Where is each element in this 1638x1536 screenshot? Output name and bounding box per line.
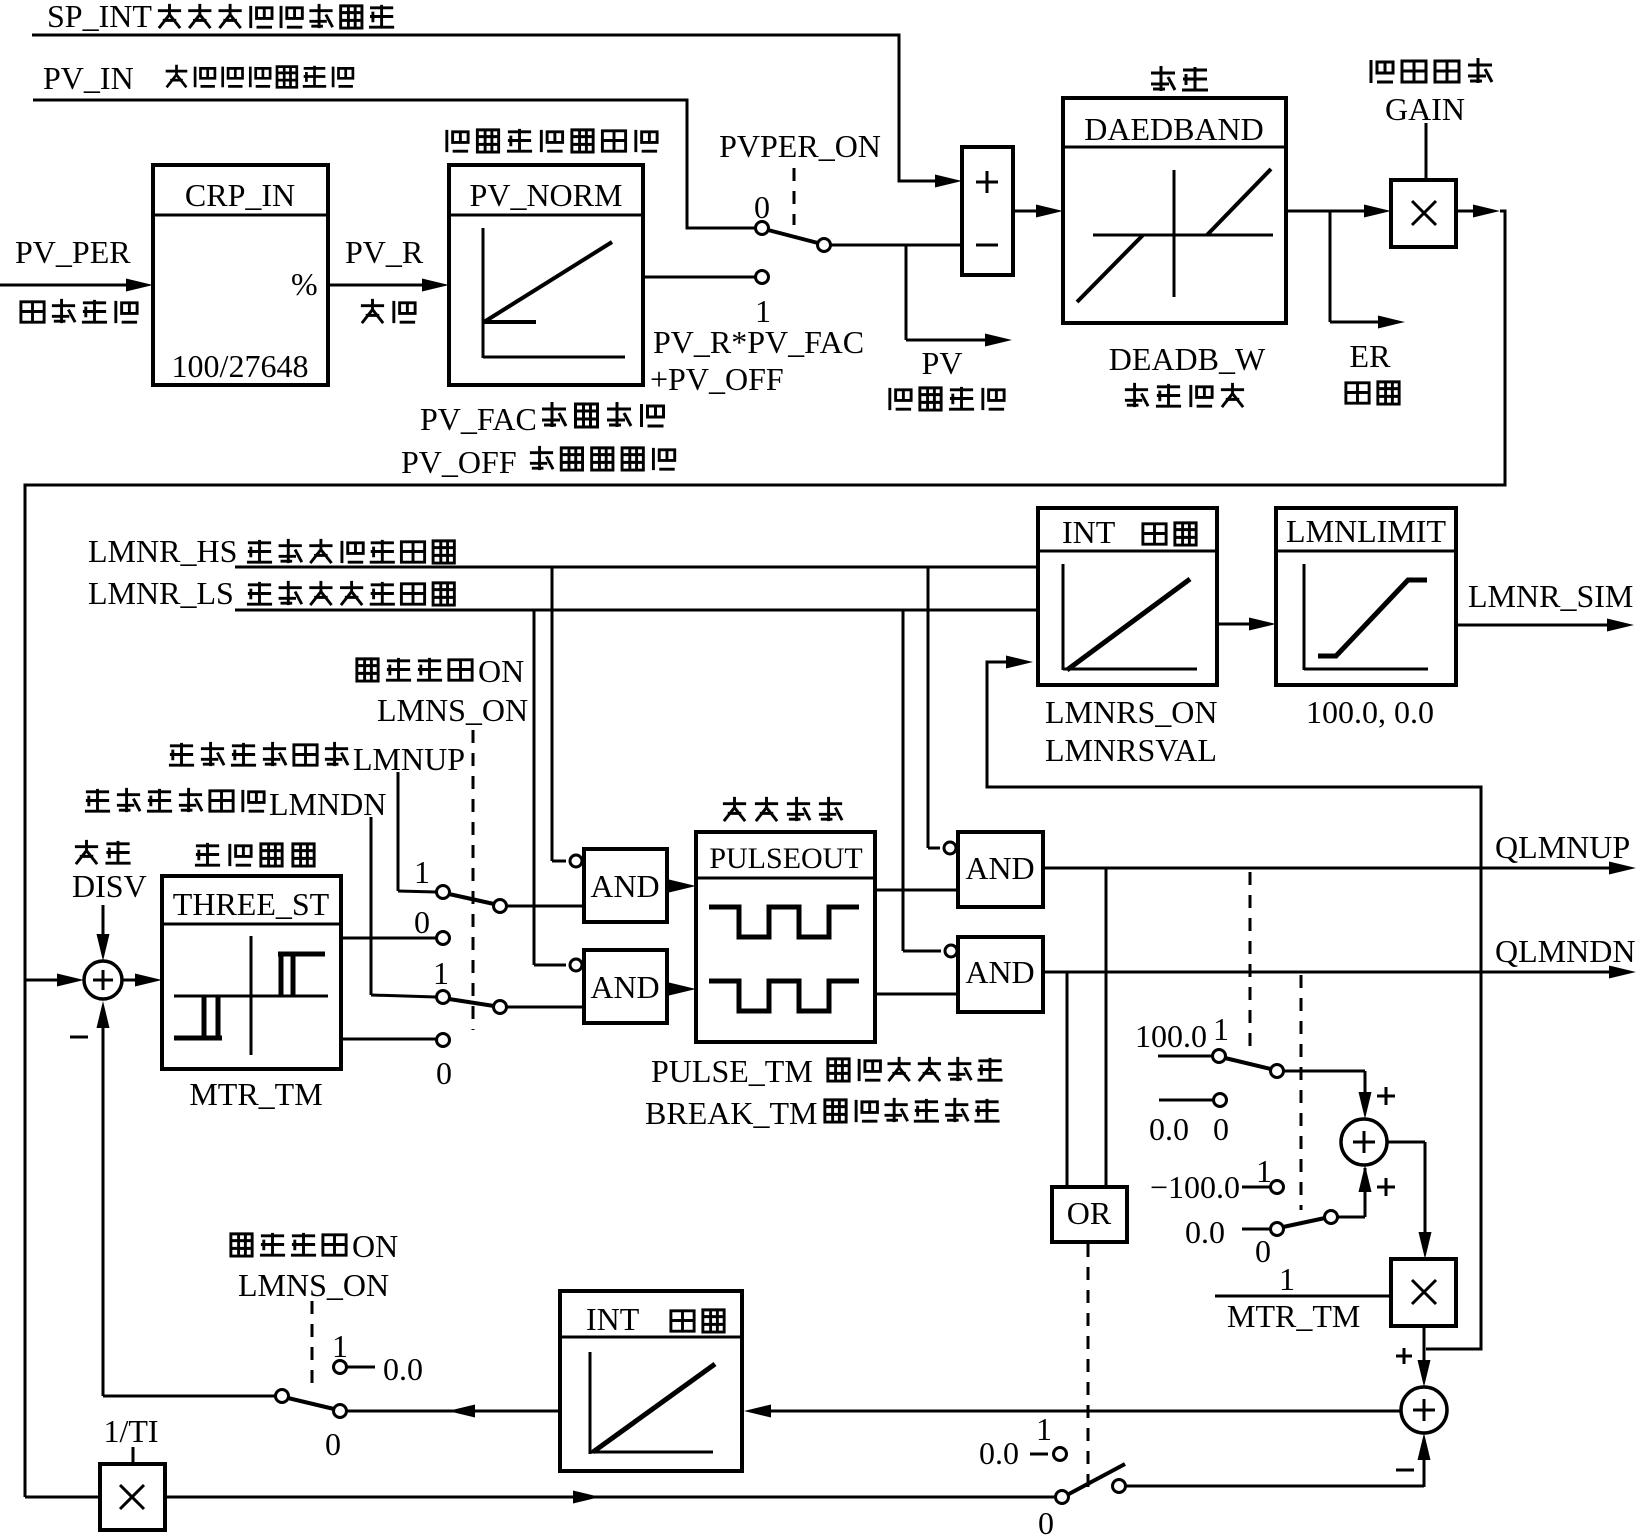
wire LMNDN drop [371,817,436,997]
node SP_INT label [47,0,394,34]
svg-text:0: 0 [754,189,770,225]
wire summer2 to multiplier [1387,1142,1432,1259]
svg-text:0.0: 0.0 [1149,1111,1189,1147]
node LMNDN label [85,786,386,822]
block INT integrator1 [1038,508,1217,685]
switch PVPER_ON [719,128,962,329]
wire LMNR_LS drop to AND4 bubble [903,610,941,951]
svg-text:AND: AND [590,969,659,1005]
wire DEADBAND to GAIN [1286,205,1391,218]
node 1/TI label [103,1413,158,1464]
svg-text:MTR_TM: MTR_TM [189,1076,322,1112]
gate AND1 [570,849,696,922]
svg-text:MTR_TM: MTR_TM [1227,1298,1360,1334]
block PULSEOUT [696,797,875,1042]
node 0.0 upper contact [1149,1094,1229,1148]
multiplier GAIN [1371,58,1492,247]
block DAEDBAND [1063,66,1286,323]
wire summer1 to THREE_ST [122,974,162,987]
svg-text:SP_INT: SP_INT [47,0,152,34]
multiplier TI [100,1464,165,1530]
summer3 circle [1401,1387,1447,1433]
svg-text:LMNUP: LMNUP [353,741,465,777]
wire LMNR_LS drop to AND2 bubble [534,610,566,965]
svg-text:CRP_IN: CRP_IN [185,177,295,213]
svg-text:%: % [291,266,318,302]
svg-text:PV_FAC: PV_FAC [420,401,537,437]
node LMNLIMIT params label [1306,694,1434,730]
svg-text:LMNR_LS: LMNR_LS [88,575,234,611]
svg-text:1: 1 [1213,1011,1229,1047]
wire PV_NORM out to switch contact 1 [643,276,755,279]
gate AND2 [570,950,696,1023]
svg-text:0.0: 0.0 [1185,1214,1225,1250]
svg-text:PV_OFF: PV_OFF [401,444,517,480]
svg-text:PULSE_TM: PULSE_TM [651,1053,813,1089]
summer1 circle [84,961,122,999]
svg-text:AND: AND [965,954,1034,990]
wire ER feedback loop [25,211,1505,1497]
node BREAK_TM label [645,1095,1000,1131]
svg-text:0: 0 [325,1426,341,1462]
node PV_FAC label [420,401,664,437]
node PV_OFF label [401,444,675,480]
node MTR_TM label [189,1076,322,1112]
svg-text:PULSEOUT: PULSEOUT [709,842,862,875]
svg-text:1: 1 [332,1328,348,1364]
svg-text:PV_IN: PV_IN [43,60,134,96]
svg-text:LMNS_ON: LMNS_ON [377,692,528,728]
node LMNUP label [169,741,465,777]
svg-text:0: 0 [414,904,430,940]
svg-text:PV_NORM: PV_NORM [470,177,623,213]
switch manual down contacts [433,955,584,1091]
node PULSE_TM label [651,1053,1003,1089]
node minus label summer1 [70,1036,88,1039]
svg-text:0: 0 [1213,1111,1229,1147]
wire LMNUP drop [398,772,436,892]
svg-text:LMNR_HS: LMNR_HS [88,533,237,569]
summer SP-PV [962,147,1013,275]
svg-text:PV_PER: PV_PER [15,234,131,270]
svg-text:1: 1 [1256,1153,1272,1189]
wire LMNS_ON dashed control [472,730,475,1030]
node LMNR_LS label [88,575,454,611]
wire ER into summer1 [25,974,84,987]
svg-text:INT: INT [1062,514,1116,550]
wire GAIN out [1456,205,1500,218]
input PV_PER arrow [0,234,153,323]
svg-text:1: 1 [1036,1411,1052,1447]
svg-text:1/TI: 1/TI [103,1413,158,1449]
svg-text:100.0, 0.0: 100.0, 0.0 [1306,694,1434,730]
wire PULSEOUT down out [875,993,958,996]
multiplier MTR_TM [1391,1259,1456,1326]
wire integral feedback up [97,1001,110,1396]
node LMNR_HS label [88,533,454,569]
wire INT2 out left [346,1405,560,1418]
svg-text:1: 1 [1279,1261,1295,1297]
node 1/MTR_TM fraction [1215,1261,1391,1334]
wire LMNR_HS drop to AND3 bubble [928,567,940,848]
svg-text:DAEDBAND: DAEDBAND [1084,111,1264,147]
svg-text:0: 0 [1038,1505,1054,1536]
summer2 circle [1341,1119,1387,1165]
block INT integrator2 [560,1291,742,1471]
wire LMNR_HS [235,566,1038,569]
switch manual up contacts [414,854,584,945]
svg-text:GAIN: GAIN [1385,91,1465,127]
wire ER branch arrow [1330,211,1405,404]
svg-text:PV_R: PV_R [345,234,424,270]
svg-text:AND: AND [590,868,659,904]
wire THREE_ST down out [341,1038,436,1041]
block CRP_IN [153,165,328,385]
svg-text:LMNDN: LMNDN [269,786,386,822]
wire summer3 out to INT2 [744,1405,1401,1418]
wire minus input summer3 [1125,1433,1431,1487]
wire DISV arrow [97,905,110,961]
wire SP_INT to summer plus input [32,35,962,188]
svg-text:ER: ER [1350,338,1392,374]
gate OR [1052,1187,1127,1242]
node PV_R*PV_FAC+PV_OFF label [650,324,864,397]
wire summer to DEADBAND [1013,205,1063,218]
node manual mode label lower [231,1228,398,1303]
svg-text:BREAK_TM: BREAK_TM [645,1095,817,1131]
node PV_IN label [43,60,353,96]
wire PV_R arrow [328,234,449,323]
svg-text:0: 0 [436,1055,452,1091]
wire QLMNUP [1043,829,1636,875]
wire LMNRS feedback loop [987,656,1481,1350]
svg-text:100/27648: 100/27648 [172,348,309,384]
wire into TI multiplier [25,1496,100,1499]
node DEADB_W label [1109,341,1266,407]
svg-text:OR: OR [1067,1195,1112,1231]
wire switch-100 to summer2 [1359,1165,1396,1217]
switch integral off [979,1411,1126,1536]
svg-text:LMNLIMIT: LMNLIMIT [1286,513,1446,549]
wire OR dashed control [1087,1244,1090,1490]
wire QLMNDN [1043,933,1636,979]
svg-text:+PV_OFF: +PV_OFF [650,361,784,397]
svg-text:AND: AND [965,850,1034,886]
svg-text:LMNR_SIM: LMNR_SIM [1468,578,1633,614]
wire LMNS dashed lower [311,1301,314,1390]
svg-text:1: 1 [433,955,449,991]
wire LMNR_SIM out [1456,578,1634,632]
svg-text:PV: PV [922,345,963,381]
wire QLMNDN dashed control [1300,975,1303,1210]
wire PV_IN to switch contact 0 [33,100,755,228]
block THREE_ST [162,876,341,1069]
svg-text:DISV: DISV [72,868,147,904]
wire TI out to switch [165,1491,1054,1504]
switch 100.0 [1135,1011,1365,1078]
gate AND4 [945,937,1043,1012]
wire LMNR_HS drop to AND1 bubble [552,567,566,861]
svg-text:0.0: 0.0 [979,1435,1019,1471]
switch -100.0 [1150,1153,1365,1269]
node three-step label [195,843,314,866]
block LMNLIMIT [1276,508,1456,685]
wire multiplier out junction [1396,1326,1431,1387]
svg-text:QLMNDN: QLMNDN [1495,933,1635,969]
node LMNRS label [1045,694,1217,768]
svg-text:1: 1 [414,854,430,890]
node DISV label [72,840,147,904]
wire AND3 to OR [1105,868,1108,1187]
wire LMNR_LS [235,609,1038,612]
wire QLMNUP dashed control [1249,872,1252,1047]
svg-text:LMNS_ON: LMNS_ON [238,1267,389,1303]
wire AND4 to OR [1066,972,1069,1187]
node manual mode label upper [357,653,528,728]
svg-text:PVPER_ON: PVPER_ON [719,128,881,164]
wire INT1 to LMNLIMIT [1217,618,1276,631]
svg-text:−100.0: −100.0 [1150,1169,1240,1205]
wire PV branch arrow [890,245,1012,410]
svg-text:ON: ON [478,653,524,689]
svg-text:100.0: 100.0 [1135,1018,1207,1054]
svg-text:LMNRSVAL: LMNRSVAL [1045,732,1217,768]
gate AND3 [944,832,1043,907]
svg-text:ON: ON [352,1228,398,1264]
svg-text:QLMNUP: QLMNUP [1495,829,1630,865]
svg-text:0: 0 [1255,1233,1271,1269]
wire switch100 to summer2 [1359,1071,1396,1119]
svg-text:LMNRS_ON: LMNRS_ON [1045,694,1217,730]
svg-text:PV_R*PV_FAC: PV_R*PV_FAC [653,324,864,360]
svg-text:THREE_ST: THREE_ST [173,886,330,922]
svg-text:DEADB_W: DEADB_W [1109,341,1266,377]
svg-text:0.0: 0.0 [383,1351,423,1387]
wire PULSEOUT up out [875,889,958,892]
wire THREE_ST up out [341,937,436,940]
switch manual value [103,1328,423,1462]
block PV_NORM [447,129,657,385]
svg-text:INT: INT [586,1301,640,1337]
